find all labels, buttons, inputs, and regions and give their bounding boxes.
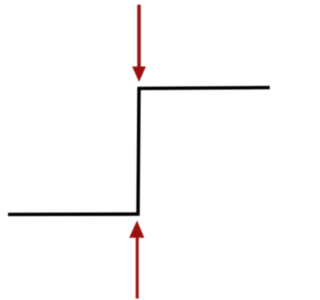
arrow down (top) xyxy=(132,5,146,82)
arrow up (bottom) xyxy=(129,221,144,299)
wire: step signal line xyxy=(8,88,270,215)
